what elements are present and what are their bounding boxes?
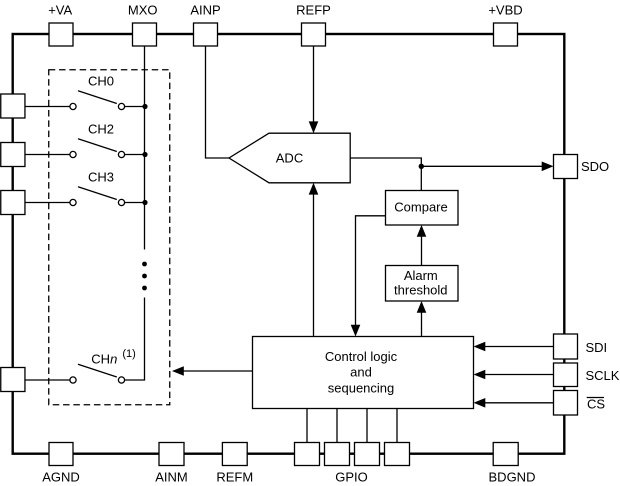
svg-text:MXO: MXO bbox=[128, 3, 158, 18]
svg-text:SCLK: SCLK bbox=[586, 368, 620, 383]
svg-text:Compare: Compare bbox=[394, 200, 447, 215]
svg-text:GPIO: GPIO bbox=[335, 469, 368, 484]
svg-text:+VBD: +VBD bbox=[488, 3, 522, 18]
svg-text:SDO: SDO bbox=[581, 159, 609, 174]
svg-text:CH3: CH3 bbox=[88, 169, 114, 184]
svg-text:BDGND: BDGND bbox=[489, 469, 536, 484]
svg-text:Alarm: Alarm bbox=[404, 268, 438, 283]
svg-text:REFP: REFP bbox=[296, 3, 331, 18]
svg-text:REFM: REFM bbox=[216, 469, 253, 484]
svg-text:ADC: ADC bbox=[276, 151, 303, 166]
svg-text:CH2: CH2 bbox=[88, 121, 114, 136]
svg-text:CH0: CH0 bbox=[88, 73, 114, 88]
svg-text:threshold: threshold bbox=[394, 282, 447, 297]
svg-text:Control logic: Control logic bbox=[325, 349, 398, 364]
svg-text:AGND: AGND bbox=[42, 469, 80, 484]
svg-text:CS: CS bbox=[587, 396, 605, 411]
svg-text:AINM: AINM bbox=[155, 469, 188, 484]
svg-text:AINP: AINP bbox=[190, 3, 220, 18]
svg-text:and: and bbox=[350, 365, 372, 380]
svg-text:+VA: +VA bbox=[48, 3, 72, 18]
svg-text:sequencing: sequencing bbox=[328, 380, 395, 395]
svg-text:SDI: SDI bbox=[586, 340, 608, 355]
